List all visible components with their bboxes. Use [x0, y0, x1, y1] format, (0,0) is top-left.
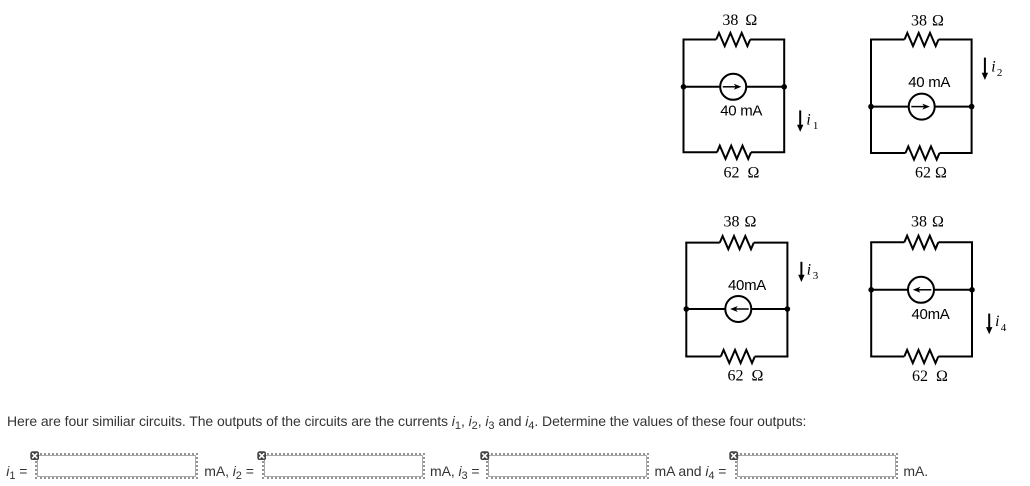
svg-text:4: 4	[1001, 322, 1007, 334]
node C1 right junction	[781, 84, 787, 90]
current source C3 40 mA (left)	[725, 296, 751, 322]
wire C2 bottom-left segment	[870, 152, 906, 154]
wire C1 left side	[683, 40, 685, 153]
svg-text:38 Ω: 38 Ω	[911, 12, 944, 29]
svg-text:38 Ω: 38 Ω	[722, 12, 757, 29]
svg-text:i: i	[807, 261, 811, 278]
wire C4 top-left segment	[870, 241, 904, 243]
wire C1 right side	[783, 40, 785, 153]
wire C1 bottom-right segment	[751, 151, 785, 153]
wire C1 top-left segment	[683, 39, 717, 41]
svg-text:38 Ω: 38 Ω	[911, 213, 944, 230]
resistor C2 R-top 38Ω	[905, 33, 939, 46]
svg-text:40 mA: 40 mA	[908, 74, 950, 91]
wire C1 middle branch	[684, 86, 785, 88]
answer box 1	[35, 453, 198, 479]
svg-text:62 Ω: 62 Ω	[912, 368, 948, 385]
wire C2 left side	[870, 40, 872, 154]
answer box 3	[486, 453, 649, 479]
svg-text:62 Ω: 62 Ω	[724, 165, 760, 182]
wire C4 top-right segment	[938, 241, 973, 243]
wire C2 middle branch	[871, 106, 972, 108]
svg-text:1: 1	[813, 120, 819, 132]
node C4 right junction	[969, 287, 975, 293]
answer box 4	[735, 453, 898, 479]
wire C3 bottom-left segment	[685, 356, 721, 358]
wire C4 left side	[870, 242, 872, 356]
answer row label i1 =	[6, 463, 27, 479]
wire C3 top-right segment	[754, 242, 789, 244]
current source C1 40 mA (right)	[720, 74, 746, 100]
node C2 left junction	[868, 104, 874, 110]
label mA and i4 =	[655, 463, 727, 479]
svg-text:40 mA: 40 mA	[720, 102, 762, 119]
svg-text:40mA: 40mA	[728, 277, 766, 294]
wire C2 right side	[971, 40, 973, 154]
svg-text:3: 3	[813, 270, 819, 282]
wire C4 right side	[971, 242, 973, 356]
svg-text:i: i	[806, 111, 810, 128]
wire C3 top-left segment	[685, 242, 720, 244]
resistor C3 R-bottom 62Ω	[721, 350, 755, 363]
output current arrow i4	[986, 313, 1007, 334]
wire C3 bottom-right segment	[755, 356, 789, 358]
output current arrow i2	[982, 58, 1003, 80]
resistor C4 R-bottom 62Ω	[904, 350, 938, 363]
resistor C4 R-top 38Ω	[904, 236, 938, 249]
svg-text:62 Ω: 62 Ω	[915, 164, 947, 181]
node C4 left junction	[868, 287, 874, 293]
label mA, i2 =	[204, 463, 254, 479]
node C2 right junction	[969, 104, 975, 110]
output current arrow i1	[797, 110, 818, 131]
wire C3 right side	[786, 243, 788, 357]
output current arrow i3	[798, 261, 819, 282]
wire C1 top-right segment	[750, 39, 785, 41]
answer box 2	[262, 453, 425, 479]
resistor C1 R-bottom 62Ω	[717, 146, 751, 159]
node C3 left junction	[684, 306, 690, 312]
wire C4 bottom-right segment	[938, 356, 973, 358]
wire C2 top-left segment	[870, 39, 905, 41]
wire C3 left side	[685, 243, 687, 357]
svg-text:i: i	[991, 59, 995, 76]
wire C3 middle branch	[686, 308, 787, 310]
label mA, i3 =	[430, 463, 480, 479]
svg-text:2: 2	[997, 67, 1003, 79]
svg-text:40mA: 40mA	[912, 306, 950, 323]
wire C2 bottom-right segment	[940, 152, 973, 154]
current source C2 40 mA (right)	[909, 94, 935, 120]
instruction text	[7, 413, 806, 429]
svg-text:38 Ω: 38 Ω	[723, 213, 756, 230]
svg-text:i: i	[995, 313, 999, 330]
node C3 right junction	[785, 306, 791, 312]
resistor C2 R-bottom 62Ω	[906, 146, 940, 159]
wire C4 middle branch	[871, 289, 972, 291]
current source C4 40 mA (left)	[908, 277, 934, 303]
wire C4 bottom-left segment	[870, 356, 904, 358]
svg-text:62 Ω: 62 Ω	[728, 368, 764, 385]
label mA.	[903, 463, 928, 479]
resistor C3 R-top 38Ω	[720, 236, 754, 249]
wire C2 top-right segment	[939, 39, 973, 41]
node C1 left junction	[681, 84, 687, 90]
resistor C1 R-top 38Ω	[716, 33, 750, 46]
wire C1 bottom-left segment	[683, 151, 718, 153]
